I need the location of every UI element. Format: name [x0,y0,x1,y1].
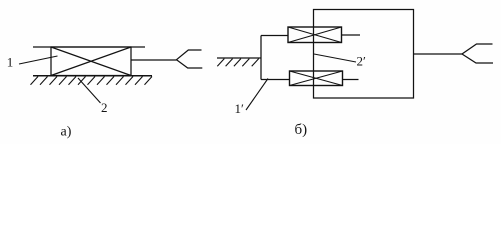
leader line for label 2 [78,78,101,103]
wire: upper right stub [342,34,360,36]
wire: lower right stub [343,79,359,81]
fork symbol (diagram b output) [462,44,493,63]
svg-text:2: 2 [101,100,108,115]
housing rectangle (diagram b) [314,10,414,99]
bearing box upper (crossed rectangle, diagram b) [288,27,342,43]
wall line (fixed support, diagram b) [217,57,261,59]
bearing box 1 (crossed rectangle, diagram a) [51,47,131,76]
support line 2 (fixed frame, diagram a) [33,75,152,77]
bracket 1' (vertical link, diagram b) [260,36,262,80]
wire: lower left connector [261,79,290,81]
svg-text:1: 1 [7,55,14,70]
wire: output shaft (diagram b) [414,53,463,55]
wire: input shaft line (diagram a, top) [33,46,145,48]
svg-text:б): б) [295,122,308,138]
hatching (fixed frame, diagram a) [31,77,153,85]
leader line for label 1 [19,56,58,64]
leader line for label 2' [314,54,356,62]
leader line for label 1' [246,79,268,111]
hatching (fixed support, diagram b) [217,59,258,67]
bearing box lower (crossed rectangle, diagram b) [290,71,343,86]
wire: output shaft (diagram a) [131,59,177,61]
svg-text:2′: 2′ [357,54,367,69]
wire: upper left connector [261,35,288,37]
svg-text:а): а) [61,125,72,140]
svg-text:1′: 1′ [235,101,245,116]
fork symbol (diagram a output) [177,50,203,68]
